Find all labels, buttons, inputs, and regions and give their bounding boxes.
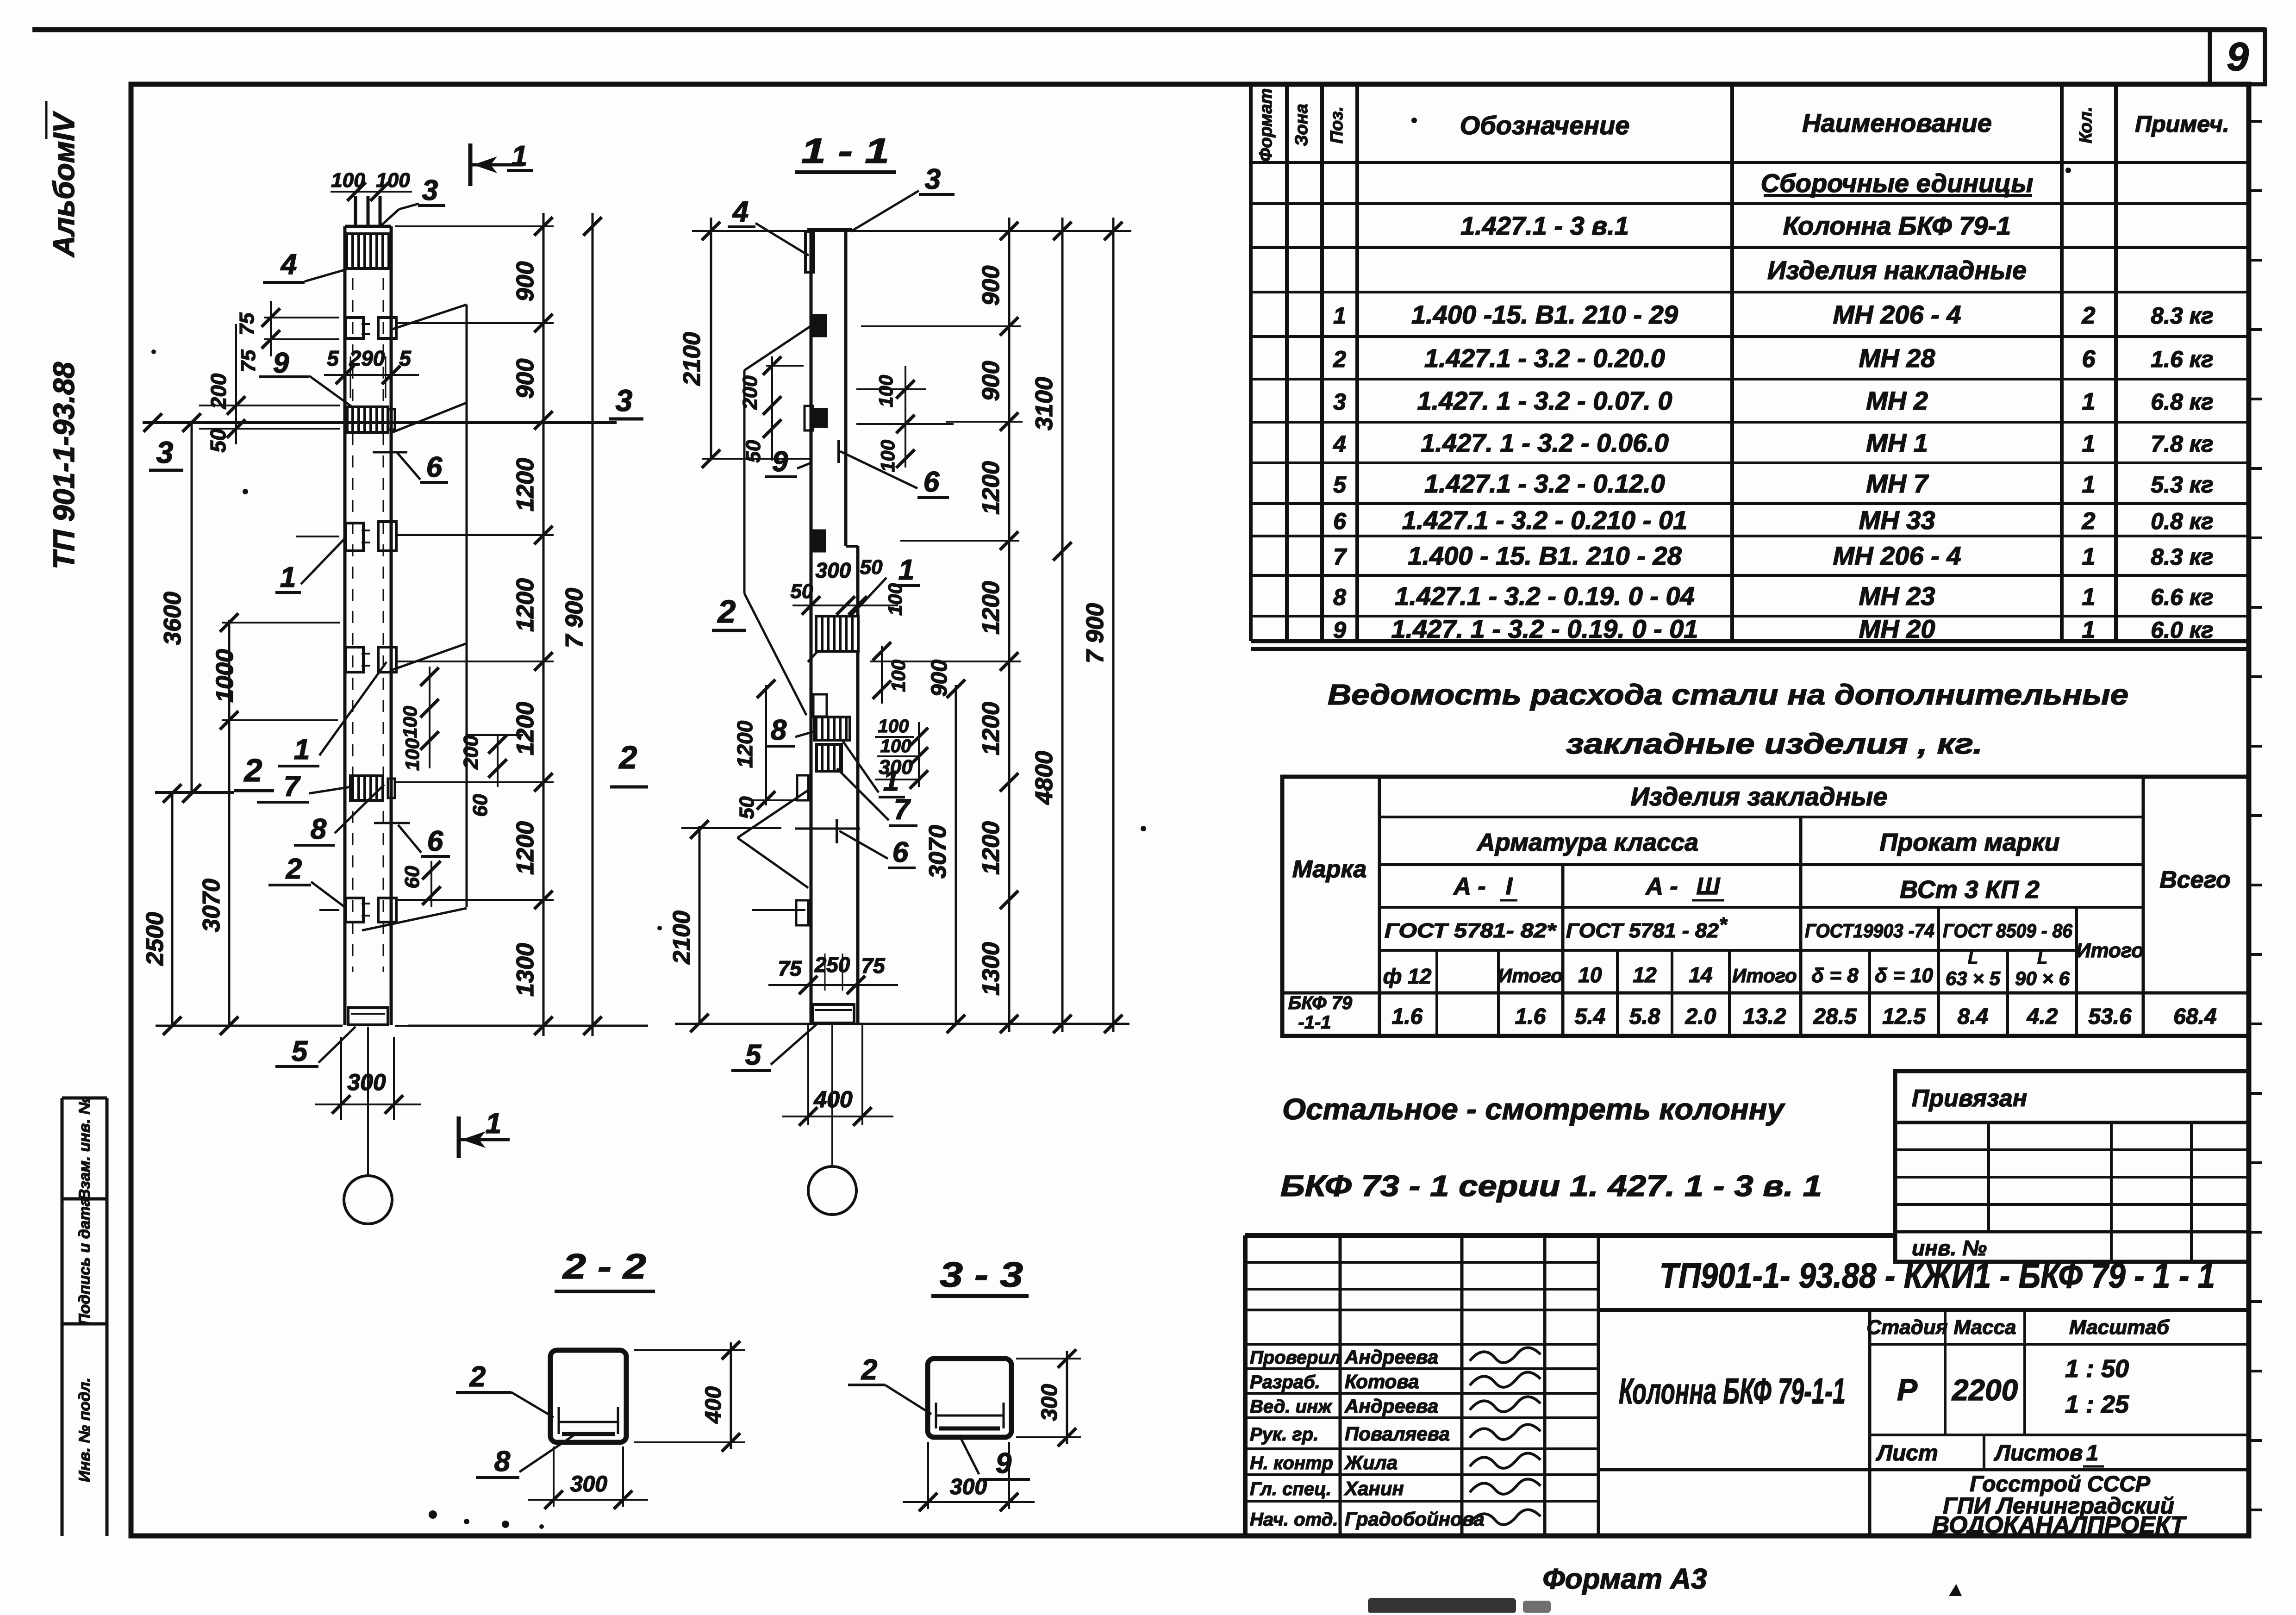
svg-text:75: 75 [778, 956, 802, 980]
svg-text:1.427.1 - 3.2 - 0.19. 0 - 04: 1.427.1 - 3.2 - 0.19. 0 - 04 [1395, 581, 1695, 611]
svg-text:3: 3 [156, 435, 174, 469]
svg-text:7.8 кг: 7.8 кг [2151, 431, 2213, 457]
svg-text:10: 10 [1578, 963, 1602, 987]
svg-text:2: 2 [1333, 346, 1346, 372]
svg-text:1200: 1200 [733, 720, 757, 768]
svg-text:ГОСТ 8509 - 86: ГОСТ 8509 - 86 [1943, 920, 2073, 942]
right dim chain left figure [543, 213, 545, 1036]
svg-text:50: 50 [206, 429, 230, 453]
svg-text:2: 2 [861, 1354, 877, 1386]
svg-text:1000: 1000 [212, 649, 238, 703]
svg-text:1: 1 [2082, 430, 2096, 457]
bottom extension line right chain [408, 1025, 648, 1027]
specification table [1249, 84, 1253, 641]
svg-text:3070: 3070 [924, 825, 951, 879]
svg-text:8: 8 [771, 714, 787, 746]
svg-text:1200: 1200 [512, 821, 539, 875]
svg-text:Итого: Итого [1498, 965, 1563, 986]
svg-text:1 : 25: 1 : 25 [2065, 1391, 2129, 1418]
svg-text:900: 900 [512, 262, 539, 302]
svg-text:Наименование: Наименование [1802, 108, 1992, 137]
svg-text:1: 1 [2082, 543, 2096, 570]
svg-text:1.427. 1 - 3.2 - 0.07. 0: 1.427. 1 - 3.2 - 0.07. 0 [1417, 386, 1672, 415]
svg-text:Инв. № подл.: Инв. № подл. [76, 1378, 94, 1482]
svg-text:Взам. инв. №: Взам. инв. № [76, 1097, 94, 1201]
left margin stamp table [61, 1098, 64, 1536]
title block [1243, 1235, 1248, 1536]
svg-text:9: 9 [1333, 617, 1346, 643]
svg-text:5: 5 [327, 346, 339, 370]
svg-text:Остальное - смотреть колонну: Остальное - смотреть колонну [1282, 1092, 1785, 1126]
right edge ticks [2249, 120, 2262, 123]
svg-text:Ш: Ш [1697, 873, 1721, 900]
top cap plate hatched [347, 234, 389, 268]
hanging circle [367, 1027, 369, 1176]
svg-text:75: 75 [236, 312, 258, 335]
svg-text:1: 1 [2082, 388, 2096, 415]
svg-text:Ханин: Ханин [1344, 1478, 1404, 1499]
svg-text:1.6: 1.6 [1515, 1004, 1546, 1029]
svg-text:Листов: Листов [1994, 1441, 2083, 1465]
right column body [810, 230, 813, 1024]
connector at 1429 [346, 647, 363, 672]
svg-text:закладные изделия , кг.: закладные изделия , кг. [1566, 728, 1983, 760]
svg-text:МН 23: МН 23 [1859, 581, 1935, 611]
dim 300 sec22 [553, 1447, 555, 1507]
bottom extension left [156, 1025, 343, 1027]
svg-text:3: 3 [1333, 389, 1346, 415]
svg-text:60: 60 [401, 866, 424, 888]
svg-text:Итого: Итого [1732, 965, 1797, 986]
svg-text:3: 3 [925, 163, 941, 195]
svg-text:Котова: Котова [1345, 1371, 1419, 1392]
dim 300 right sec33 [1066, 1351, 1068, 1444]
svg-text:6: 6 [1333, 508, 1347, 534]
svg-text:1.427.1 - 3.2 - 0.210 - 01: 1.427.1 - 3.2 - 0.210 - 01 [1402, 505, 1687, 535]
svg-text:4: 4 [1333, 431, 1346, 457]
svg-text:100: 100 [401, 738, 423, 771]
right figure dim chains [1008, 218, 1011, 1032]
svg-text:9: 9 [2227, 35, 2249, 79]
svg-text:БКФ 73 - 1 серии 1. 427: БКФ 73 - 1 серии 1. 427. 1 - 3 в. 1 [1280, 1169, 1822, 1203]
leader 2 upper right fig [743, 370, 746, 593]
svg-text:Формат: Формат [1256, 88, 1276, 162]
svg-text:1300: 1300 [512, 943, 539, 997]
svg-text:12.5: 12.5 [1882, 1004, 1926, 1029]
flange 1168 [814, 530, 825, 551]
svg-text:ГОСТ 5781- 82*: ГОСТ 5781- 82* [1385, 919, 1557, 942]
svg-text:7: 7 [894, 794, 911, 826]
svg-text:ГОСТ19903 -74: ГОСТ19903 -74 [1805, 920, 1934, 942]
svg-text:300: 300 [570, 1472, 607, 1497]
svg-text:1300: 1300 [978, 942, 1004, 996]
svg-text:8: 8 [311, 813, 327, 845]
plate 7 hatched [350, 776, 383, 800]
svg-text:5: 5 [1333, 472, 1347, 498]
left dim 3600 [191, 423, 193, 793]
plate 9 hatched [347, 407, 388, 432]
svg-text:ВОДОКАНАЛПРОЕКТ: ВОДОКАНАЛПРОЕКТ [1932, 1512, 2187, 1539]
svg-text:1.427.1 - 3.2 - 0.12.0: 1.427.1 - 3.2 - 0.12.0 [1424, 469, 1665, 498]
svg-text:1: 1 [486, 1108, 501, 1140]
dim 2100 lower [699, 826, 701, 1024]
svg-text:Всего: Всего [2159, 867, 2231, 893]
svg-text:300: 300 [879, 756, 913, 779]
svg-text:2: 2 [717, 593, 736, 630]
svg-text:50: 50 [791, 580, 813, 603]
svg-text:7: 7 [284, 771, 301, 803]
dim 400 sec22 [730, 1342, 732, 1449]
svg-text:4800: 4800 [1031, 751, 1058, 805]
svg-text:9: 9 [273, 347, 289, 379]
svg-text:8.4: 8.4 [1958, 1004, 1989, 1029]
svg-text:ТП901-1- 93.88 - КЖИ1 - БКФ 79: ТП901-1- 93.88 - КЖИ1 - БКФ 79 - 1 - 1 [1660, 1256, 2215, 1296]
svg-text:900: 900 [927, 660, 952, 697]
svg-text:Подпись и дата: Подпись и дата [76, 1197, 94, 1325]
svg-text:Поз.: Поз. [1327, 106, 1347, 144]
svg-text:Андреева: Андреева [1344, 1395, 1438, 1417]
svg-text:δ = 10: δ = 10 [1875, 964, 1933, 987]
svg-text:6.0 кг: 6.0 кг [2151, 617, 2213, 643]
svg-text:13.2: 13.2 [1743, 1004, 1786, 1029]
bottom smudge [1368, 1598, 1516, 1614]
svg-text:300: 300 [950, 1475, 987, 1499]
svg-text:1.427.1 - 3 в.1: 1.427.1 - 3 в.1 [1460, 211, 1629, 240]
svg-text:Н. контр: Н. контр [1250, 1453, 1333, 1473]
svg-text:8: 8 [1333, 584, 1346, 610]
svg-text:63 × 5: 63 × 5 [1946, 967, 2001, 989]
svg-text:А -: А - [1645, 873, 1678, 900]
svg-text:2500: 2500 [142, 912, 168, 966]
svg-text:Кол.: Кол. [2076, 106, 2096, 143]
svg-text:Итого: Итого [2076, 939, 2144, 962]
top rule [32, 27, 2265, 32]
section mark 1 top [468, 143, 473, 186]
svg-text:1: 1 [1333, 303, 1346, 329]
svg-text:3600: 3600 [159, 592, 186, 645]
svg-text:Альбом: Альбом [47, 141, 81, 258]
svg-text:*: * [1719, 913, 1728, 936]
svg-text:200: 200 [739, 375, 761, 410]
svg-text:100: 100 [887, 660, 909, 692]
svg-text:1.6: 1.6 [1392, 1004, 1423, 1029]
svg-text:2: 2 [618, 739, 637, 775]
svg-text:6: 6 [892, 836, 909, 868]
svg-text:5.3 кг: 5.3 кг [2151, 472, 2213, 498]
svg-text:Обозначение: Обозначение [1460, 111, 1630, 140]
svg-text:2: 2 [2082, 508, 2096, 535]
svg-text:Разраб.: Разраб. [1250, 1372, 1320, 1392]
svg-text:МН 28: МН 28 [1859, 343, 1936, 373]
svg-text:2: 2 [286, 853, 302, 885]
svg-text:1: 1 [2082, 617, 2096, 643]
svg-text:2 - 2: 2 - 2 [562, 1247, 646, 1286]
svg-text:100: 100 [878, 716, 909, 736]
svg-text:Примеч.: Примеч. [2135, 111, 2229, 137]
svg-text:2100: 2100 [668, 910, 695, 965]
svg-text:Арматура класса: Арматура класса [1476, 829, 1698, 856]
left column inner dashed bars [352, 278, 354, 972]
flange 705 [814, 315, 826, 336]
svg-text:1.6 кг: 1.6 кг [2151, 346, 2213, 372]
svg-text:1.400 -15. В1. 210 - 29: 1.400 -15. В1. 210 - 29 [1411, 300, 1678, 329]
dim 400 bottom [807, 1024, 809, 1125]
svg-text:75: 75 [861, 954, 886, 978]
section 2-2 square [550, 1350, 626, 1442]
svg-text:1.427. 1 - 3.2 - 0.19. 0 - 0: 1.427. 1 - 3.2 - 0.19. 0 - 01 [1391, 614, 1698, 643]
svg-text:3100: 3100 [1031, 377, 1058, 430]
svg-text:5.8: 5.8 [1629, 1004, 1660, 1029]
scan specks [429, 1510, 437, 1519]
svg-text:1: 1 [898, 554, 914, 586]
svg-text:1.427. 1 - 3.2 - 0.06.0: 1.427. 1 - 3.2 - 0.06.0 [1421, 428, 1668, 457]
svg-text:ВСт 3 КП 2: ВСт 3 КП 2 [1900, 876, 2040, 904]
svg-text:2.0: 2.0 [1685, 1004, 1716, 1029]
svg-text:5: 5 [292, 1035, 308, 1067]
svg-text:1: 1 [512, 140, 527, 172]
svg-text:L: L [2037, 948, 2047, 967]
svg-text:Андреева: Андреева [1344, 1346, 1438, 1368]
svg-text:4: 4 [732, 196, 749, 228]
svg-text:Масштаб: Масштаб [2069, 1316, 2170, 1339]
svg-text:3 - 3: 3 - 3 [940, 1255, 1023, 1295]
svg-text:МН 33: МН 33 [1859, 505, 1935, 535]
svg-text:1: 1 [2086, 1441, 2099, 1465]
svg-text:7 900: 7 900 [561, 588, 588, 648]
bottom plate left fig [348, 1008, 388, 1025]
svg-text:100: 100 [877, 440, 898, 472]
svg-text:2: 2 [469, 1361, 486, 1393]
svg-text:1 - 1: 1 - 1 [801, 131, 889, 171]
connector at 1944 [346, 898, 363, 922]
svg-text:4.2: 4.2 [2027, 1004, 2058, 1029]
svg-text:90 × 6: 90 × 6 [2015, 967, 2070, 989]
svg-text:6: 6 [426, 451, 443, 483]
svg-text:δ = 8: δ = 8 [1811, 964, 1859, 987]
svg-text:5: 5 [745, 1039, 762, 1071]
svg-text:Жила: Жила [1344, 1452, 1398, 1473]
dim 2100 upper [710, 218, 712, 459]
connector at 698 [346, 318, 363, 338]
svg-text:2100: 2100 [679, 332, 705, 386]
svg-text:МН 206 - 4: МН 206 - 4 [1833, 300, 1961, 329]
svg-text:1: 1 [280, 561, 296, 593]
plate pos1 hatched [816, 616, 858, 651]
svg-text:300: 300 [816, 558, 851, 582]
svg-text:Изделия накладные: Изделия накладные [1767, 256, 2027, 285]
svg-text:I: I [1506, 873, 1513, 900]
svg-text:1: 1 [2082, 584, 2096, 611]
svg-text:9: 9 [772, 446, 788, 478]
plate 9 area 911 [805, 406, 813, 430]
svg-text:ф 12: ф 12 [1383, 964, 1432, 988]
svg-text:75: 75 [237, 349, 260, 372]
leader 2 style lower [737, 790, 808, 838]
svg-text:Марка: Марка [1292, 856, 1367, 883]
sheet number box 9 [2210, 30, 2265, 84]
svg-text:200: 200 [206, 373, 231, 409]
svg-text:6.8 кг: 6.8 кг [2151, 389, 2213, 415]
svg-text:1200: 1200 [978, 821, 1004, 875]
svg-text:1200: 1200 [978, 702, 1004, 755]
left dim chain x495 [228, 620, 231, 1026]
svg-text:Рук. гр.: Рук. гр. [1250, 1424, 1318, 1445]
svg-text:Стадия: Стадия [1866, 1316, 1947, 1339]
steel table [1282, 777, 2249, 1036]
svg-text:Формат А3: Формат А3 [1542, 1563, 1707, 1595]
svg-text:68.4: 68.4 [2173, 1004, 2216, 1029]
svg-text:ГОСТ 5781 - 82: ГОСТ 5781 - 82 [1566, 919, 1719, 942]
svg-text:БКФ 79: БКФ 79 [1288, 993, 1353, 1013]
svg-text:1.400 - 15. В1. 210 - 28: 1.400 - 15. В1. 210 - 28 [1408, 541, 1682, 570]
svg-text:Вед. инж: Вед. инж [1250, 1397, 1333, 1417]
svg-text:1200: 1200 [512, 702, 539, 755]
svg-text:100: 100 [880, 736, 911, 756]
svg-text:1: 1 [2082, 471, 2096, 498]
svg-text:Масса: Масса [1953, 1316, 2016, 1339]
svg-text:7 900: 7 900 [1082, 603, 1109, 663]
svg-text:Нач. отд.: Нач. отд. [1250, 1509, 1338, 1530]
svg-text:14: 14 [1689, 963, 1712, 987]
svg-text:Зона: Зона [1292, 104, 1311, 146]
svg-text:Лист: Лист [1876, 1441, 1938, 1465]
svg-text:6.6 кг: 6.6 кг [2151, 584, 2213, 610]
svg-text:12: 12 [1633, 963, 1657, 987]
svg-text:7: 7 [1333, 544, 1347, 570]
flange 1525 right fig [813, 694, 827, 717]
bottom dim 300 [340, 1037, 342, 1120]
svg-text:-1-1: -1-1 [1298, 1012, 1331, 1033]
svg-text:0.8 кг: 0.8 кг [2151, 508, 2213, 534]
top anchor bars [354, 196, 357, 226]
svg-text:60: 60 [469, 794, 492, 817]
svg-text:200: 200 [460, 735, 482, 770]
svg-text:900: 900 [978, 266, 1004, 306]
section 3-3 square [928, 1359, 1011, 1437]
svg-text:1200: 1200 [978, 461, 1004, 515]
svg-text:Гл. спец.: Гл. спец. [1250, 1479, 1331, 1499]
svg-text:900: 900 [512, 359, 539, 399]
left column body [343, 226, 347, 1025]
svg-text:100: 100 [884, 583, 906, 616]
svg-text:300: 300 [347, 1069, 386, 1095]
svg-text:3: 3 [422, 175, 438, 206]
left dim 2500 [171, 793, 174, 1026]
svg-text:100: 100 [875, 375, 897, 407]
svg-text:100: 100 [399, 706, 421, 738]
svg-text:МН 20: МН 20 [1859, 614, 1935, 643]
svg-text:6: 6 [427, 825, 443, 857]
svg-text:L: L [1968, 948, 1978, 967]
svg-text:Колонна БКФ 79-1: Колонна БКФ 79-1 [1783, 211, 2011, 240]
svg-text:2: 2 [243, 752, 262, 788]
svg-text:1.427.1 - 3.2 - 0.20.0: 1.427.1 - 3.2 - 0.20.0 [1424, 343, 1665, 373]
svg-text:8.3 кг: 8.3 кг [2151, 303, 2213, 329]
step in right edge [846, 545, 858, 548]
svg-text:4: 4 [280, 249, 297, 281]
svg-text:50: 50 [860, 556, 883, 579]
svg-text:Прокат марки: Прокат марки [1879, 829, 2059, 856]
svg-text:6: 6 [923, 466, 940, 498]
svg-text:МН 2: МН 2 [1866, 386, 1928, 415]
svg-text:Изделия закладные: Изделия закладные [1630, 782, 1887, 811]
section 3-3 cut line [143, 421, 617, 424]
svg-text:900: 900 [978, 361, 1004, 401]
extension lines right figure [692, 230, 1131, 232]
svg-text:2200: 2200 [1952, 1373, 2018, 1407]
dim 3070 partial [955, 685, 957, 1024]
svg-text:Ведомость расхода стал: Ведомость расхода стали на дополнительны… [1328, 679, 2128, 711]
flange 1700 lower [797, 775, 808, 800]
svg-text:Сборочные единицы: Сборочные единицы [1761, 168, 2034, 198]
svg-text:МН 1: МН 1 [1866, 428, 1928, 457]
svg-text:28.5: 28.5 [1813, 1004, 1857, 1029]
section mark 1 bottom [457, 1116, 461, 1158]
svg-text:1 : 50: 1 : 50 [2065, 1355, 2129, 1383]
svg-text:300: 300 [1037, 1384, 1062, 1421]
svg-text:ТП 901-1-93.88: ТП 901-1-93.88 [47, 362, 81, 569]
svg-text:250: 250 [814, 953, 850, 977]
dim 300 below sec33 [927, 1442, 929, 1509]
svg-text:2: 2 [2082, 302, 2096, 329]
svg-text:Р: Р [1897, 1372, 1918, 1407]
svg-text:1200: 1200 [512, 578, 539, 632]
svg-text:5.4: 5.4 [1575, 1004, 1606, 1029]
svg-text:МН 7: МН 7 [1866, 469, 1929, 498]
svg-text:Проверил: Проверил [1250, 1347, 1341, 1368]
svg-text:8.3 кг: 8.3 кг [2151, 544, 2213, 570]
svg-text:8: 8 [494, 1446, 511, 1478]
svg-text:Колонна БКФ 79-1-1: Колонна БКФ 79-1-1 [1619, 1371, 1846, 1411]
flange 1966 [796, 900, 808, 925]
svg-text:1200: 1200 [512, 458, 539, 511]
svg-text:А -: А - [1453, 873, 1485, 900]
plate pos8 hatched lower [814, 717, 850, 740]
svg-text:53.6: 53.6 [2088, 1004, 2132, 1029]
svg-text:400: 400 [701, 1386, 726, 1424]
privyazan table [1895, 1071, 2249, 1262]
connector at 1156 [346, 523, 363, 551]
svg-text:1: 1 [294, 734, 310, 766]
right collector polyline [466, 305, 468, 907]
bottom extension right figure [675, 1023, 1129, 1025]
svg-text:6: 6 [2082, 346, 2096, 373]
bottom plate right fig [812, 1004, 854, 1023]
top plate pos4 [805, 231, 814, 272]
svg-text:Поваляева: Поваляева [1345, 1423, 1450, 1445]
svg-text:1200: 1200 [978, 581, 1004, 635]
svg-text:МН 206 - 4: МН 206 - 4 [1833, 541, 1961, 570]
svg-text:IV: IV [47, 111, 81, 141]
svg-text:3070: 3070 [198, 879, 225, 932]
svg-text:3: 3 [616, 383, 633, 418]
hanging circle right fig [831, 1023, 833, 1166]
svg-text:Градобойнова: Градобойнова [1345, 1508, 1485, 1530]
svg-text:Привязан: Привязан [1912, 1085, 2027, 1112]
